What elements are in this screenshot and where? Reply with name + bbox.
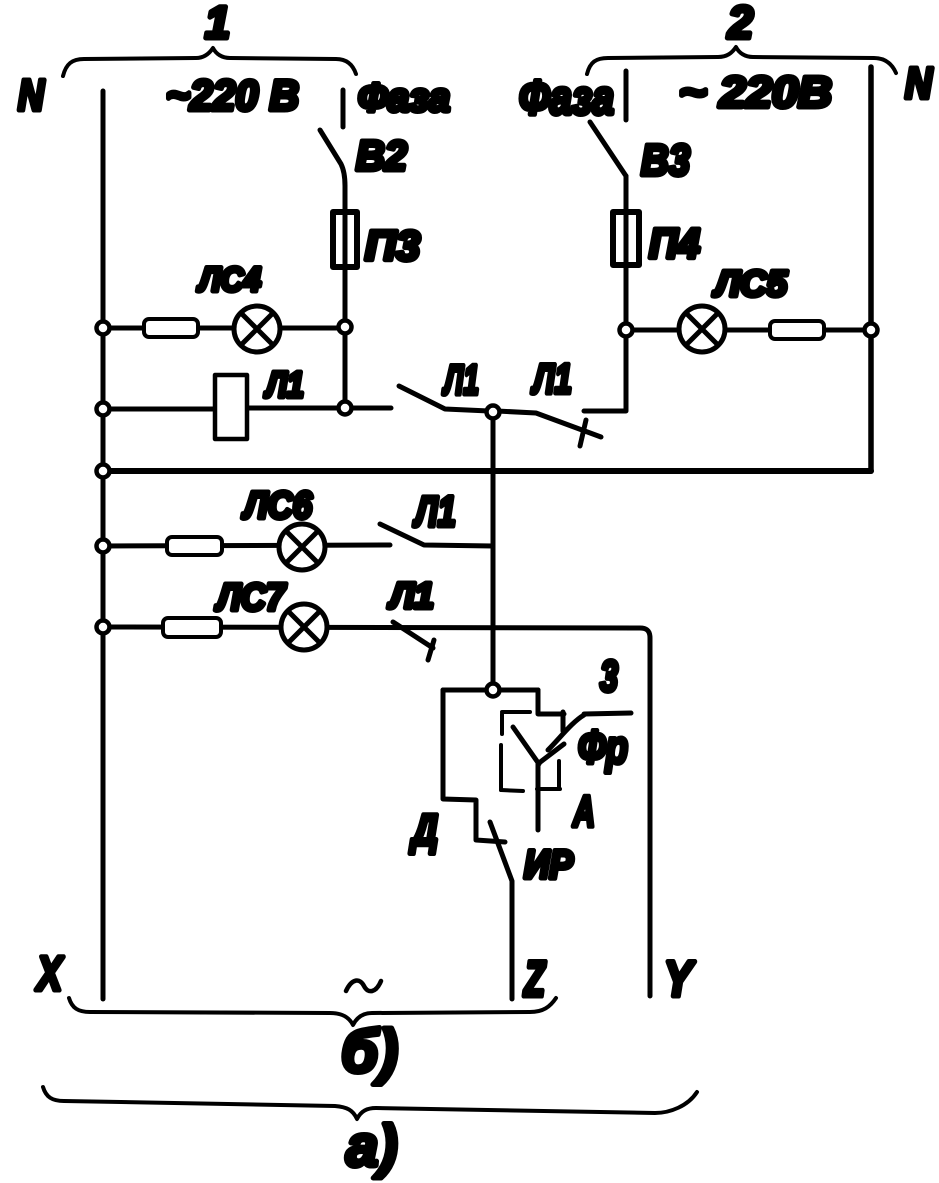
contact Фр blade curve	[548, 715, 584, 750]
block А dashed box	[501, 712, 560, 791]
lamp ЛС7	[281, 604, 327, 650]
wire: ЛС6 row	[103, 545, 390, 546]
svg-text:П3: П3	[365, 222, 420, 269]
switch B2 blade	[320, 130, 345, 186]
lamp ЛС6	[279, 524, 325, 570]
wire: left N bus vertical	[101, 91, 106, 999]
wire: phase 2 down through fuse to contact	[584, 176, 626, 411]
svg-text:Л1: Л1	[413, 488, 456, 536]
brace д)	[43, 1087, 697, 1119]
wire Фр overline	[584, 713, 631, 714]
resistor ЛС6 branch	[167, 537, 222, 555]
svg-text:Y: Y	[664, 951, 696, 1007]
svg-text:Л1: Л1	[531, 355, 572, 402]
contact Л1 a (blade)	[399, 386, 489, 411]
wire: ЛС7 row to Y terminal	[103, 627, 650, 996]
node bus left	[97, 465, 110, 478]
svg-text:2: 2	[727, 0, 753, 48]
svg-text:ЛС5: ЛС5	[712, 263, 788, 304]
svg-text:N: N	[18, 71, 45, 120]
node relay left	[97, 403, 110, 416]
node ЛС5 left	[620, 324, 633, 337]
svg-text:Д: Д	[409, 806, 438, 855]
svg-text:ИР: ИР	[524, 843, 573, 887]
contact Л1 d blade (break)	[393, 622, 434, 660]
fuse П4	[613, 212, 639, 265]
lamp ЛС4	[234, 306, 280, 352]
contact blade in block A	[513, 727, 539, 764]
contact blade branch	[539, 744, 564, 763]
node device top	[487, 684, 500, 697]
svg-text:3: 3	[600, 652, 618, 701]
svg-text:1: 1	[205, 0, 230, 48]
wire: ЛС5 row	[626, 328, 871, 333]
node ЛС5 right	[865, 324, 878, 337]
svg-text:Фр: Фр	[578, 721, 628, 773]
resistor ЛС4 branch	[144, 319, 198, 337]
wire: center vertical from node to device	[491, 412, 496, 690]
svg-text:В3: В3	[641, 136, 690, 185]
contact ИР blade and Z wire	[490, 822, 512, 999]
svg-text:~ 220В: ~ 220В	[679, 68, 832, 117]
wire: long horizontal bus	[103, 468, 871, 474]
node ЛС7 left	[97, 621, 110, 634]
svg-text:Z: Z	[523, 951, 547, 1007]
svg-text:ЛС4: ЛС4	[196, 261, 261, 299]
wire: ЛС4 row	[103, 326, 345, 331]
node ЛС4 left	[97, 322, 110, 335]
wire: right N bus vertical	[868, 67, 874, 471]
resistor ЛС7 branch	[163, 618, 221, 637]
node: phase 2 top stub	[624, 71, 629, 120]
contact seat	[561, 712, 566, 731]
svg-text:б): б)	[341, 1018, 398, 1085]
block А upper step wire	[538, 690, 564, 714]
svg-text:ЛС6: ЛС6	[241, 485, 313, 527]
wire: phase 1 down through fuse	[343, 186, 348, 402]
relay Л1 coil	[103, 375, 391, 439]
svg-text:Л1: Л1	[263, 364, 304, 405]
fuse П3	[333, 212, 357, 267]
tilde above brace б	[346, 981, 381, 992]
node ЛС4 right	[339, 321, 352, 334]
node contact junction	[487, 406, 500, 419]
svg-text:Фаза: Фаза	[358, 76, 450, 120]
node relay right	[339, 402, 352, 415]
contact Л1 b (break contact)	[497, 411, 601, 446]
svg-text:N: N	[905, 59, 933, 108]
brace 1	[63, 48, 356, 76]
svg-text:Л1: Л1	[387, 575, 434, 616]
svg-text:П4: П4	[649, 220, 700, 267]
brace б)	[69, 998, 556, 1025]
svg-text:А: А	[572, 787, 595, 836]
device Д outline	[443, 690, 538, 842]
lamp ЛС5	[679, 306, 725, 352]
svg-text:~220 В: ~220 В	[166, 72, 299, 120]
switch B3 blade	[590, 122, 626, 176]
svg-text:Л1: Л1	[442, 356, 479, 403]
contact Л1 c blade	[380, 524, 493, 546]
resistor ЛС5 branch	[770, 321, 824, 339]
svg-text:X: X	[35, 948, 65, 1001]
svg-text:В2: В2	[356, 132, 407, 179]
svg-text:Фаза: Фаза	[519, 72, 614, 125]
node ЛС6 left	[97, 540, 110, 553]
svg-text:а): а)	[346, 1114, 398, 1179]
node: phase 1 top stub	[341, 90, 346, 127]
wire down from contact	[536, 764, 541, 830]
svg-text:ЛС7: ЛС7	[214, 577, 286, 619]
brace 2	[587, 47, 896, 74]
